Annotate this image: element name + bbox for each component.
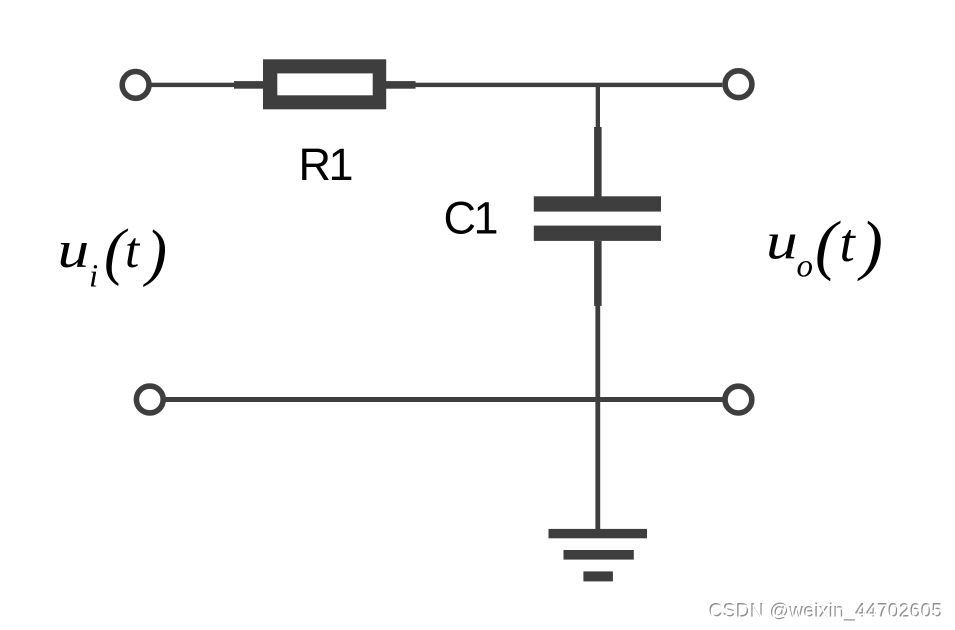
ground bar 1 (549, 529, 648, 538)
svg-text:o: o (797, 249, 814, 285)
svg-text:(: ( (815, 208, 841, 282)
terminal TR (output top) (725, 71, 752, 98)
wire: bottom rail BL to BR (166, 397, 723, 402)
ground bar 2 (564, 550, 634, 560)
ground bar 3 (583, 571, 613, 581)
label u_o(t) output voltage (766, 208, 883, 285)
svg-text:R1: R1 (299, 139, 352, 190)
capacitor C1 top plate (534, 196, 661, 211)
wire: R1 to TR terminal (through node) (414, 83, 722, 87)
wire stub: R1 left lead (234, 81, 264, 89)
wire: node down to C1 (thick segment) (594, 127, 602, 197)
wire: TL terminal to R1 left stub (151, 83, 236, 87)
svg-text:u: u (58, 220, 90, 278)
resistor R1 body (263, 59, 386, 109)
terminal BL (input bottom) (136, 386, 163, 413)
terminal BR (output bottom) (725, 386, 752, 413)
terminal TL (input top) (122, 72, 149, 99)
svg-text:t: t (840, 212, 857, 273)
svg-text:): ) (857, 208, 883, 282)
watermark CSDN (709, 601, 944, 623)
label u_i(t) input voltage (58, 216, 167, 294)
capacitor C1 bottom plate (534, 226, 661, 241)
svg-text:C1: C1 (444, 193, 497, 244)
svg-text:CSDN @weixin_44702605: CSDN @weixin_44702605 (710, 602, 944, 623)
svg-text:t: t (125, 223, 141, 279)
svg-text:u: u (766, 212, 798, 270)
wire stub: R1 right lead (386, 81, 416, 89)
wire: C1 down (thick segment) (594, 241, 602, 306)
svg-text:i: i (89, 259, 98, 295)
wire: C1 down to ground (thin segment, crosses bottom wire) (595, 304, 600, 530)
svg-text:): ) (143, 217, 167, 287)
wire: node down to C1 (thin segment) (596, 85, 600, 129)
